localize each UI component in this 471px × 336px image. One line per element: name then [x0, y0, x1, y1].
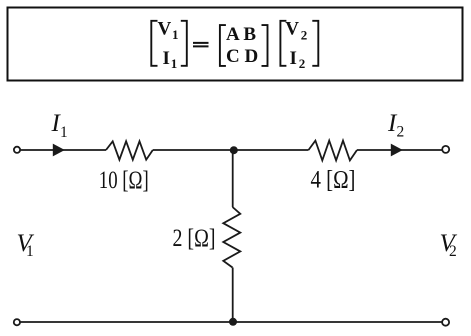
resistor R2 4 ohm zigzag — [309, 141, 358, 161]
svg-text:2 [Ω]: 2 [Ω] — [173, 225, 216, 252]
svg-text:1: 1 — [60, 124, 68, 141]
svg-text:2: 2 — [301, 27, 308, 42]
svg-text:2: 2 — [397, 124, 405, 141]
node junction bottom — [229, 318, 237, 326]
current arrow I2 — [391, 144, 403, 157]
equation frame box — [8, 8, 463, 81]
svg-text:1: 1 — [26, 243, 34, 260]
port 1 bottom terminal — [14, 319, 20, 325]
right column vector bracket [ — [280, 21, 286, 66]
svg-text:V: V — [158, 19, 172, 40]
left column vector bracket ] — [181, 21, 187, 66]
svg-text:2: 2 — [449, 243, 457, 260]
wire: R1 to node — [153, 149, 309, 151]
svg-text:4 [Ω]: 4 [Ω] — [311, 167, 356, 194]
left column vector bracket [ — [151, 21, 157, 66]
equals sign — [193, 43, 209, 47]
wire: R2 to terminal 2 — [357, 149, 442, 151]
svg-text:C D: C D — [226, 46, 258, 67]
wire: terminal 1 to R1 — [20, 149, 106, 151]
svg-text:1: 1 — [172, 27, 179, 42]
svg-text:I: I — [163, 48, 170, 69]
node junction top — [230, 146, 238, 154]
svg-text:1: 1 — [171, 56, 178, 71]
svg-text:2: 2 — [299, 56, 306, 71]
ABCD matrix bracket [ — [220, 25, 226, 66]
svg-text:V: V — [285, 19, 299, 40]
port 2 bottom terminal — [442, 319, 449, 326]
bottom rail wire — [20, 321, 442, 323]
resistor R1 10 ohm zigzag — [106, 141, 153, 159]
wire: node down to R3 — [232, 150, 234, 207]
ABCD matrix bracket ] — [262, 25, 268, 66]
port 2 top terminal — [442, 146, 449, 153]
current arrow I1 — [53, 144, 65, 157]
wire: R3 to bottom rail — [232, 268, 234, 322]
port 1 top terminal — [14, 147, 20, 153]
right column vector bracket ] — [312, 21, 318, 66]
svg-text:I: I — [290, 48, 297, 69]
svg-text:10 [Ω]: 10 [Ω] — [99, 167, 149, 194]
resistor R3 2 ohm vertical zigzag — [223, 207, 240, 268]
svg-text:A B: A B — [226, 24, 256, 45]
